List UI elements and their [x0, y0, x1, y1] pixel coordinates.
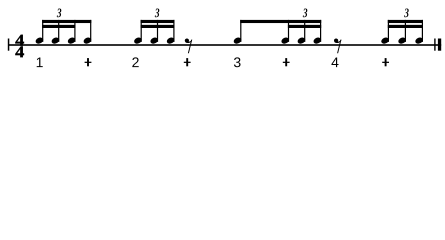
- svg-text:3: 3: [404, 5, 410, 20]
- beam group 1 secondary (triplet): [42, 25, 75, 28]
- note 5 (beat 2 triplet 1): [133, 20, 143, 45]
- note 10 (beat 3 + triplet 2): [297, 20, 307, 45]
- note 13 (beat 4 + triplet 2): [397, 20, 407, 45]
- note 2 (beat 1 triplet 2): [51, 20, 61, 45]
- time signature 4/4: [15, 31, 24, 62]
- svg-text:3: 3: [56, 5, 62, 20]
- note 3 (beat 1 triplet 3): [67, 20, 77, 45]
- beam group 2 primary: [141, 20, 175, 23]
- start barline: [8, 39, 10, 51]
- count label + (and of 3): [283, 58, 290, 66]
- svg-text:4: 4: [15, 42, 24, 61]
- note 1 (beat 1 triplet 1): [35, 20, 45, 45]
- note 12 (beat 4 + triplet 1): [380, 20, 390, 45]
- svg-text:3: 3: [154, 5, 160, 20]
- note 8 (beat 3 eighth): [233, 20, 243, 45]
- svg-text:4: 4: [331, 54, 339, 70]
- note 6 (beat 2 triplet 2): [149, 20, 159, 45]
- note 7 (beat 2 triplet 3): [166, 20, 176, 45]
- final barline thick: [438, 39, 441, 51]
- eighth rest (beat 2 +): [185, 39, 192, 54]
- eighth rest (beat 4): [334, 39, 341, 54]
- note 11 (beat 3 + triplet 3): [312, 20, 322, 45]
- count label + (and of 4): [382, 58, 389, 66]
- note 9 (beat 3 + triplet 1): [280, 20, 290, 45]
- staff line: [8, 44, 441, 46]
- svg-text:1: 1: [36, 54, 44, 70]
- final barline thin: [434, 39, 435, 51]
- count label + (and of 2): [184, 58, 191, 66]
- beam group 3 secondary (triplet): [288, 25, 321, 28]
- svg-text:2: 2: [132, 54, 140, 70]
- note 14 (beat 4 + triplet 3): [414, 20, 424, 45]
- note 4 (beat 1 eighth on +): [83, 20, 93, 45]
- beam group 4 secondary (triplet): [388, 25, 423, 28]
- beam group 3 primary: [240, 20, 321, 23]
- beam group 2 secondary (triplet): [141, 25, 175, 28]
- count label + (and of 1): [85, 58, 92, 66]
- svg-text:3: 3: [302, 5, 308, 20]
- svg-text:3: 3: [233, 54, 241, 70]
- beam group 1 primary: [42, 20, 91, 23]
- beam group 4 primary: [388, 20, 423, 23]
